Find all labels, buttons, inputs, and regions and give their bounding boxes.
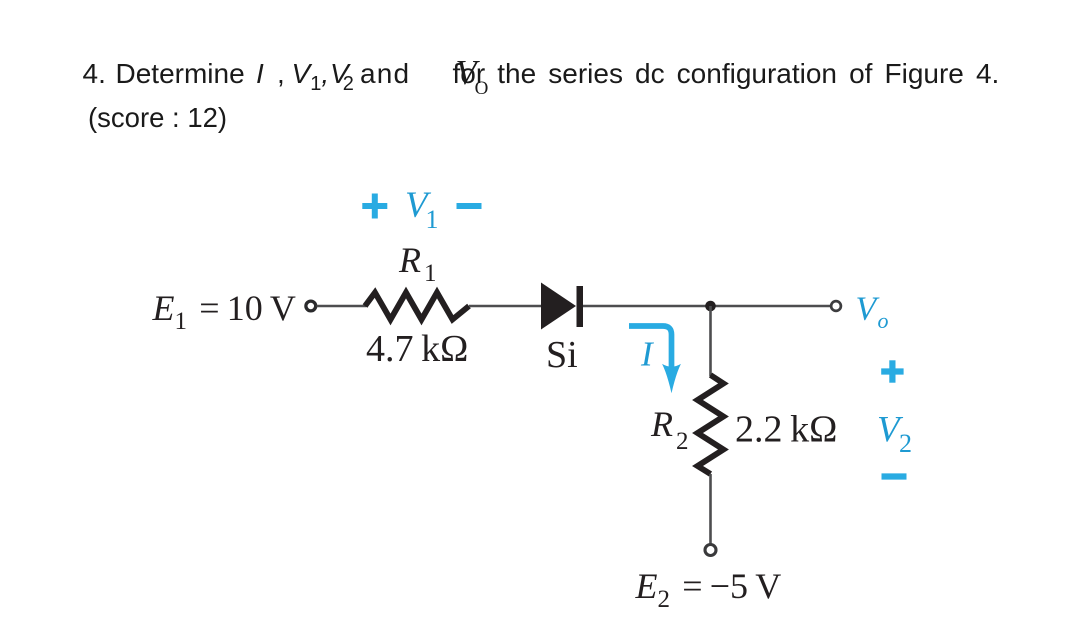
svg-text:2: 2 bbox=[658, 586, 671, 613]
resistor R1 (zigzag) bbox=[365, 293, 469, 320]
svg-text:2: 2 bbox=[676, 428, 689, 455]
polarity plus (V2) bbox=[881, 360, 903, 382]
node label Vo bbox=[856, 291, 889, 334]
problem statement line 2 bbox=[88, 104, 227, 132]
svg-text:2: 2 bbox=[899, 429, 912, 458]
wire: R2 to E2 terminal bbox=[709, 474, 712, 545]
diode D1 cathode bar bbox=[577, 286, 584, 327]
voltage label V2 bbox=[877, 410, 912, 459]
problem statement line 1 bbox=[0, 60, 1080, 90]
label E2 = -5 V bbox=[635, 566, 782, 613]
wire: node to R2 bbox=[709, 306, 712, 376]
svg-text:= 10 V: = 10 V bbox=[192, 288, 296, 328]
svg-text:E: E bbox=[635, 566, 658, 606]
diode D1 anode triangle bbox=[541, 283, 576, 330]
label R2 bbox=[650, 404, 689, 455]
wire: diode to Vo terminal bbox=[583, 305, 832, 308]
polarity minus (V1) bbox=[457, 203, 482, 209]
svg-text:1: 1 bbox=[424, 260, 437, 287]
svg-text:4.7 kΩ: 4.7 kΩ bbox=[366, 328, 468, 370]
svg-text:E: E bbox=[152, 288, 175, 328]
polarity plus (V1) bbox=[362, 194, 387, 219]
svg-text:I: I bbox=[640, 335, 655, 374]
node junction dot bbox=[705, 301, 716, 312]
polarity minus (V2) bbox=[882, 473, 907, 479]
svg-text:2.2 kΩ: 2.2 kΩ bbox=[735, 409, 837, 451]
svg-text:R: R bbox=[650, 404, 673, 444]
svg-text:1: 1 bbox=[175, 308, 188, 335]
svg-text:o: o bbox=[878, 308, 889, 333]
svg-text:= −5 V: = −5 V bbox=[675, 566, 781, 606]
terminal Vo bbox=[831, 301, 841, 311]
terminal (E2) bbox=[705, 545, 716, 556]
wire: R1 to diode bbox=[469, 305, 542, 308]
label E1 = 10 V bbox=[152, 288, 296, 335]
resistor R2 (vertical zigzag) bbox=[698, 375, 724, 474]
svg-text:Si: Si bbox=[546, 334, 578, 376]
current arrow I bbox=[629, 326, 672, 372]
svg-text:1: 1 bbox=[426, 205, 439, 234]
node label Vo (inline equation overlapping 'for') bbox=[456, 56, 489, 107]
terminal (E1 input) bbox=[306, 301, 316, 311]
label R1 bbox=[398, 240, 437, 287]
wire: E1 terminal to R1 bbox=[317, 305, 366, 308]
voltage label V1 bbox=[405, 185, 439, 234]
svg-text:R: R bbox=[398, 240, 421, 280]
